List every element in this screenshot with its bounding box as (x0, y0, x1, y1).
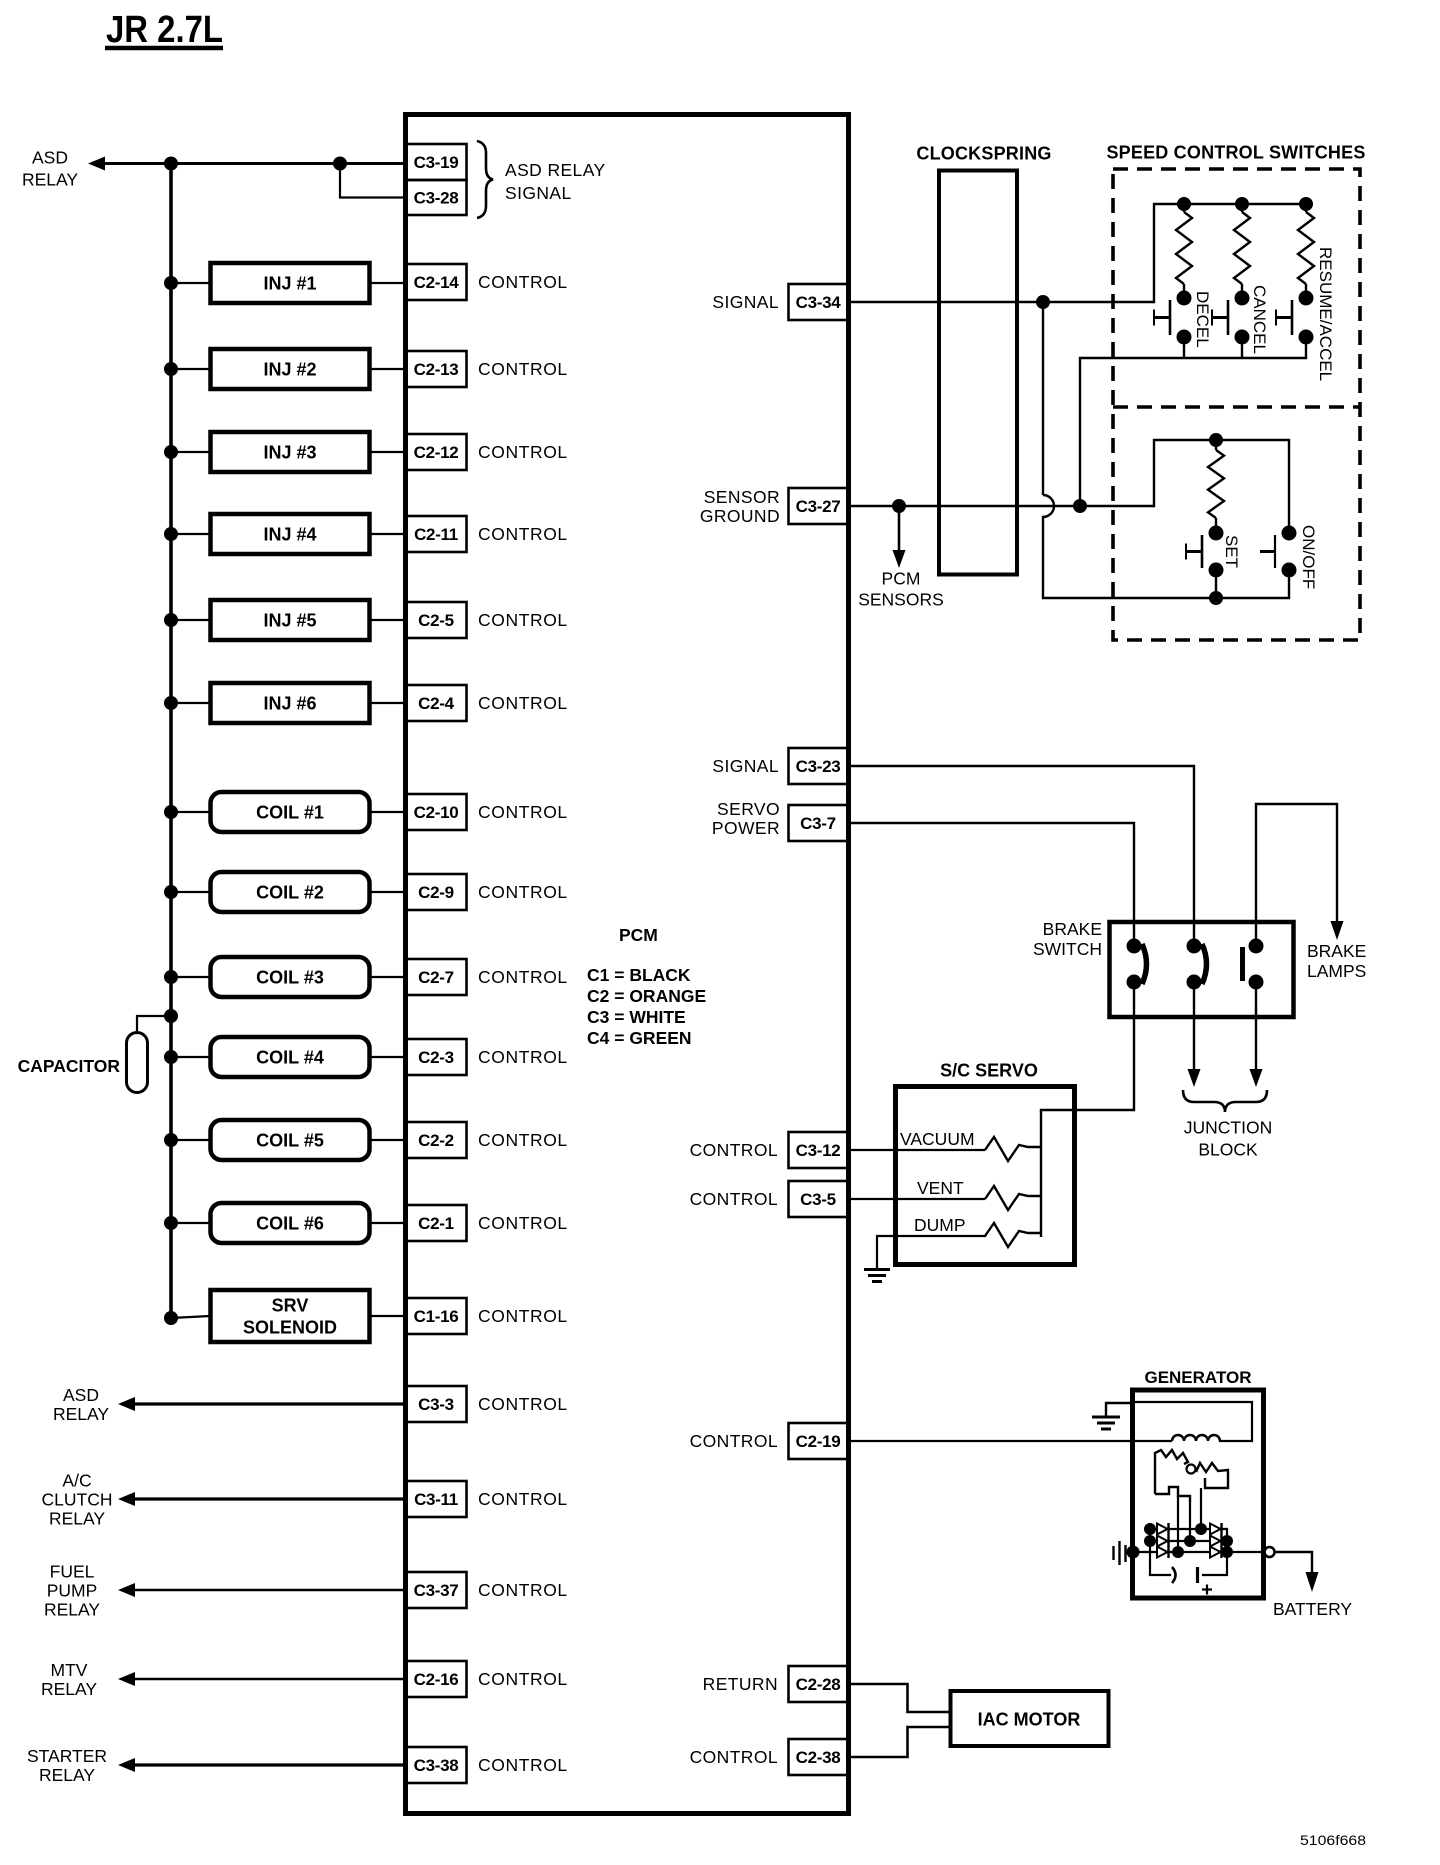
svg-text:CONTROL: CONTROL (478, 1213, 568, 1233)
wire generator internal top (1135, 1402, 1252, 1441)
label CONTROL at pin y=812 (478, 802, 568, 822)
wire capacitor to bus (137, 1016, 171, 1033)
junction dot signal (1036, 295, 1050, 309)
label CONTROL at pin y=1057 (478, 1047, 568, 1067)
ground generator field (1092, 1403, 1132, 1429)
svg-text:COIL #6: COIL #6 (256, 1213, 324, 1233)
svg-text:RELAY: RELAY (22, 169, 78, 189)
svg-text:C2-10: C2-10 (414, 803, 459, 822)
ignition coil COIL #5 (211, 1120, 370, 1160)
svg-text:INJ #5: INJ #5 (263, 610, 316, 630)
chassis ground generator (1114, 1541, 1140, 1565)
S/C servo box (896, 1087, 1075, 1265)
arrow to battery (1306, 1572, 1319, 1592)
wire PCM to STARTER RELAY (133, 1763, 406, 1766)
pin C2-28 (789, 1666, 849, 1702)
label GENERATOR (1144, 1368, 1251, 1387)
injector INJ #6 (211, 683, 370, 723)
svg-text:ASD: ASD (63, 1385, 99, 1405)
svg-text:C2-4: C2-4 (418, 694, 454, 713)
label CONTROL at pin y=1140 (478, 1130, 568, 1150)
brake switch contact 2 (1187, 939, 1207, 990)
label CONTROL at pin y=977 (478, 967, 568, 987)
wire bus branch y=812 (171, 811, 210, 813)
junction dot bus y=534 (164, 527, 178, 541)
pin C2-4 (406, 685, 467, 721)
brake switch contact 1 (1127, 939, 1147, 990)
label ON/OFF (1299, 525, 1318, 589)
svg-text:C3-5: C3-5 (800, 1190, 836, 1209)
junction dot bus y=283 (164, 276, 178, 290)
svg-text:C2-11: C2-11 (414, 525, 458, 544)
svg-text:CONTROL: CONTROL (478, 1130, 568, 1150)
label SENSOR GROUND (C3-27) (700, 487, 780, 526)
generator output terminal (1265, 1547, 1275, 1557)
svg-text:CAPACITOR: CAPACITOR (18, 1056, 121, 1076)
label CONTROL at pin y=452 (478, 442, 568, 462)
svg-text:DUMP: DUMP (914, 1215, 966, 1235)
label CAPACITOR (18, 1056, 121, 1076)
label CONTROL (C3-5) (690, 1189, 778, 1209)
injector INJ #4 (211, 514, 370, 554)
pin C2-7 (406, 959, 467, 995)
svg-text:INJ #2: INJ #2 (263, 359, 316, 379)
rectifier bridge row 2 (1144, 1535, 1233, 1547)
svg-text:BRAKE: BRAKE (1307, 941, 1366, 961)
svg-text:ASD: ASD (32, 147, 68, 167)
wire bus branch y=452 (171, 451, 210, 453)
wire signal riser to switch bus (1154, 204, 1306, 302)
junction dot bus y=1140 (164, 1133, 178, 1147)
svg-text:CONTROL: CONTROL (690, 1189, 778, 1209)
svg-text:CONTROL: CONTROL (478, 524, 568, 544)
svg-text:CONTROL: CONTROL (478, 802, 568, 822)
svg-text:BRAKE: BRAKE (1043, 919, 1102, 939)
svg-text:C2-14: C2-14 (414, 273, 460, 292)
pin C2-19 (789, 1423, 849, 1459)
ground servo dump (864, 1270, 890, 1282)
junction dot bus y=1318 (164, 1311, 178, 1325)
field coil winding (1172, 1435, 1220, 1441)
stator winding (1155, 1450, 1228, 1502)
label MTV RELAY (41, 1660, 97, 1699)
svg-text:C2-13: C2-13 (414, 360, 459, 379)
junction dot SET bottom bus (1209, 591, 1223, 605)
junction dot RESUME/ACCEL top bus (1299, 197, 1313, 211)
generator box (1133, 1390, 1264, 1598)
svg-text:CONTROL: CONTROL (478, 442, 568, 462)
svg-text:CONTROL: CONTROL (478, 1489, 568, 1509)
svg-text:RELAY: RELAY (53, 1404, 109, 1424)
pin C3-27 (789, 488, 849, 524)
wire component to pin y=1057 (369, 1056, 406, 1058)
svg-text:SENSOR: SENSOR (704, 487, 780, 507)
svg-text:C3-7: C3-7 (800, 814, 836, 833)
injector INJ #5 (211, 600, 370, 640)
wire bus branch y=283 (171, 282, 210, 284)
svg-text:SPEED CONTROL SWITCHES: SPEED CONTROL SWITCHES (1106, 142, 1365, 162)
junction dot bus y=369 (164, 362, 178, 376)
wire stator phase 1 (1177, 1496, 1179, 1552)
junction dot ASD bus (164, 157, 178, 171)
brace ASD relay signal (477, 141, 493, 218)
label CONTROL at pin y=1223 (478, 1213, 568, 1233)
pin C3-3 (406, 1386, 467, 1422)
svg-text:C2-28: C2-28 (796, 1675, 841, 1694)
label SPEED CONTROL SWITCHES (1106, 142, 1365, 162)
injector INJ #2 (211, 349, 370, 389)
svg-text:SWITCH: SWITCH (1033, 939, 1102, 959)
svg-text:CONTROL: CONTROL (478, 1669, 568, 1689)
svg-text:CONTROL: CONTROL (478, 693, 568, 713)
svg-text:ASD RELAY: ASD RELAY (505, 160, 606, 180)
pin C3-11 (406, 1481, 467, 1517)
speed control switches dashed box (1113, 169, 1360, 640)
svg-text:RELAY: RELAY (39, 1765, 95, 1785)
wire component to pin y=977 (369, 976, 406, 978)
svg-text:FUEL: FUEL (50, 1561, 95, 1581)
svg-text:RELAY: RELAY (49, 1508, 105, 1528)
svg-text:CLOCKSPRING: CLOCKSPRING (916, 143, 1051, 163)
svg-text:GROUND: GROUND (700, 506, 780, 526)
svg-text:ON/OFF: ON/OFF (1299, 525, 1318, 589)
pin C2-1 (406, 1205, 467, 1241)
switch RESUME/ACCEL (1276, 291, 1314, 359)
wire stator phase 3 (1200, 1488, 1202, 1529)
pin C1-16 (406, 1298, 467, 1334)
label CONTROL at pin y=1499 (478, 1489, 568, 1509)
brace junction block (1183, 1090, 1267, 1112)
ignition coil COIL #2 (211, 872, 370, 912)
pin C3-19 (406, 144, 467, 180)
label BRAKE SWITCH (1033, 919, 1102, 959)
svg-text:C3-19: C3-19 (414, 153, 459, 172)
label S/C SERVO (940, 1060, 1038, 1080)
label CANCEL (1250, 285, 1269, 354)
wire DUMP to ground (877, 1236, 985, 1268)
brush 1 (1172, 1567, 1176, 1583)
pin C2-11 (406, 516, 467, 552)
wire bridge right column (1203, 1529, 1227, 1575)
label 5106f668 (1300, 1833, 1366, 1848)
svg-text:CONTROL: CONTROL (690, 1140, 778, 1160)
capacitor (127, 1033, 148, 1093)
svg-text:RELAY: RELAY (41, 1679, 97, 1699)
svg-text:VENT: VENT (917, 1178, 964, 1198)
title JR 2.7L (105, 9, 223, 51)
svg-text:INJ #6: INJ #6 (263, 693, 316, 713)
label ASD RELAY SIGNAL (505, 160, 606, 203)
pin C2-16 (406, 1661, 467, 1697)
svg-text:C2-7: C2-7 (418, 968, 454, 987)
PCM box U1 (406, 115, 849, 1814)
brake switch contact 3 (1243, 939, 1264, 990)
resistor RESUME/ACCEL (1298, 204, 1314, 293)
junction dot sensor ground bus (1073, 499, 1087, 513)
wire component to pin y=812 (369, 811, 406, 813)
svg-text:C2-16: C2-16 (414, 1670, 459, 1689)
svg-text:C3-34: C3-34 (796, 293, 842, 312)
label VACUUM (900, 1129, 975, 1149)
svg-text:INJ #1: INJ #1 (263, 273, 316, 293)
svg-text:CONTROL: CONTROL (478, 610, 568, 630)
wire VENT control C3-5 (848, 1198, 985, 1200)
label ASD RELAY (top left) (22, 147, 78, 189)
svg-text:C3-12: C3-12 (796, 1141, 841, 1160)
svg-text:A/C: A/C (62, 1470, 91, 1490)
wire C2-19 field control (848, 1440, 1172, 1442)
pin C2-5 (406, 602, 467, 638)
wire brake lamps (1256, 804, 1337, 940)
svg-text:CONTROL: CONTROL (478, 272, 568, 292)
svg-text:C2-12: C2-12 (414, 443, 459, 462)
junction dot ASD branch (333, 157, 347, 171)
ignition coil COIL #3 (211, 957, 370, 997)
svg-text:CONTROL: CONTROL (478, 359, 568, 379)
pin C2-13 (406, 351, 467, 387)
wire set top bus (1154, 440, 1289, 506)
wire PCM to A/C CLUTCH RELAY (133, 1497, 406, 1500)
pin C2-38 (789, 1739, 849, 1775)
label ASD RELAY (53, 1385, 109, 1424)
label CONTROL at pin y=1316 (478, 1306, 568, 1326)
svg-text:C3-38: C3-38 (414, 1756, 459, 1775)
svg-text:COIL #1: COIL #1 (256, 802, 324, 822)
rectifier bridge row 3 (1135, 1546, 1265, 1558)
label SIGNAL (C3-34) (712, 292, 779, 312)
wire C2-38 control (848, 1727, 950, 1757)
junction dot bus y=620 (164, 613, 178, 627)
svg-text:5106f668: 5106f668 (1300, 1833, 1366, 1848)
svg-text:RELAY: RELAY (44, 1599, 100, 1619)
ignition coil COIL #1 (211, 792, 370, 832)
label A/C CLUTCH RELAY (42, 1470, 113, 1528)
svg-text:C2-1: C2-1 (418, 1214, 454, 1233)
svg-text:SET: SET (1222, 535, 1241, 568)
svg-text:C2-5: C2-5 (418, 611, 454, 630)
svg-text:COIL #2: COIL #2 (256, 882, 324, 902)
svg-text:C4 = GREEN: C4 = GREEN (587, 1028, 692, 1048)
resistor SET (1208, 440, 1224, 526)
svg-text:CANCEL: CANCEL (1250, 285, 1269, 354)
svg-text:SIGNAL: SIGNAL (712, 756, 779, 776)
svg-text:MTV: MTV (51, 1660, 88, 1680)
pin C3-38 (406, 1747, 467, 1783)
label CONTROL (C2-38) (690, 1747, 778, 1767)
switch ON/OFF (1260, 440, 1297, 598)
svg-text:RESUME/ACCEL: RESUME/ACCEL (1316, 247, 1335, 381)
wire C3-34 signal (848, 301, 1154, 303)
arrow to STARTER RELAY (118, 1758, 135, 1772)
svg-text:SRV: SRV (272, 1295, 309, 1315)
wire switch bottom bus (1080, 358, 1306, 506)
wire brake to servo (1041, 988, 1134, 1110)
svg-text:STARTER: STARTER (27, 1746, 107, 1766)
switch SET (1186, 526, 1224, 599)
wire bus branch y=892 (171, 891, 210, 893)
pin C2-10 (406, 794, 467, 830)
label CONTROL at pin y=1765 (478, 1755, 568, 1775)
arrow to ASD RELAY (118, 1397, 135, 1411)
wire bus branch y=1318 (171, 1316, 210, 1318)
svg-text:JUNCTION: JUNCTION (1184, 1117, 1272, 1137)
junction dot bus y=452 (164, 445, 178, 459)
pin C3-12 (789, 1132, 849, 1168)
svg-text:LAMPS: LAMPS (1307, 961, 1366, 981)
label CONTROL at pin y=282 (478, 272, 568, 292)
label CLOCKSPRING (916, 143, 1051, 163)
label DUMP (914, 1215, 966, 1235)
wire servo internal bus (1040, 1110, 1042, 1237)
pin C3-5 (789, 1181, 849, 1217)
svg-text:CONTROL: CONTROL (478, 1047, 568, 1067)
wire bus branch y=534 (171, 533, 210, 535)
ignition coil COIL #6 (211, 1203, 370, 1243)
resistor DECEL (1176, 204, 1192, 293)
wire component to pin y=1316 (369, 1315, 406, 1317)
svg-text:C2 = ORANGE: C2 = ORANGE (587, 986, 706, 1006)
wire PCM to ASD RELAY (133, 1402, 406, 1405)
label RETURN (C2-28) (703, 1674, 778, 1694)
label JUNCTION BLOCK (1184, 1117, 1272, 1159)
junction dot bus y=1223 (164, 1216, 178, 1230)
injector INJ #1 (211, 263, 370, 303)
wire bus branch y=1223 (171, 1222, 210, 1224)
svg-text:INJ #4: INJ #4 (263, 524, 316, 544)
wire bridge left column (1150, 1529, 1170, 1575)
svg-text:C1-16: C1-16 (414, 1307, 459, 1326)
wire component to pin y=703 (369, 702, 406, 704)
junction dot DECEL top bus (1177, 197, 1191, 211)
label BATTERY (1273, 1599, 1352, 1619)
resistor VACUUM valve (985, 1137, 1041, 1161)
svg-text:C3-23: C3-23 (796, 757, 841, 776)
label CONTROL at pin y=892 (478, 882, 568, 902)
wire C3-23 to brake switch (848, 766, 1194, 940)
wire C2-28 return (848, 1684, 950, 1712)
pin C3-34 (789, 284, 849, 320)
svg-text:IAC MOTOR: IAC MOTOR (978, 1709, 1081, 1729)
switch CANCEL (1212, 291, 1250, 359)
wire component to pin y=620 (369, 619, 406, 621)
label CONTROL at pin y=620 (478, 610, 568, 630)
svg-text:CONTROL: CONTROL (478, 1580, 568, 1600)
wire bus branch y=620 (171, 619, 210, 621)
pin C2-2 (406, 1122, 467, 1158)
svg-text:C2-19: C2-19 (796, 1432, 841, 1451)
label CONTROL at pin y=1590 (478, 1580, 568, 1600)
svg-text:CONTROL: CONTROL (478, 1394, 568, 1414)
label BRAKE LAMPS (1307, 941, 1366, 981)
arrow to brake lamps (1331, 921, 1344, 940)
svg-text:SIGNAL: SIGNAL (712, 292, 779, 312)
label CONTROL at pin y=703 (478, 693, 568, 713)
svg-text:C3-28: C3-28 (414, 189, 459, 208)
label PCM SENSORS (858, 568, 944, 609)
pin C3-28 (406, 180, 467, 215)
resistor DUMP valve (985, 1223, 1041, 1247)
pin C2-12 (406, 434, 467, 470)
wire C3-7 to brake switch (848, 823, 1134, 940)
svg-text:BATTERY: BATTERY (1273, 1599, 1352, 1619)
label CONTROL (C2-19) (690, 1431, 778, 1451)
label RESUME/ACCEL (1316, 247, 1335, 381)
legend connector colors (587, 965, 706, 1048)
junction dot CANCEL top bus (1235, 197, 1249, 211)
arrow to ASD relay (88, 157, 105, 171)
svg-text:C2-9: C2-9 (418, 883, 454, 902)
switch DECEL (1154, 291, 1192, 359)
wire bus branch y=1057 (171, 1056, 210, 1058)
svg-text:COIL #5: COIL #5 (256, 1130, 324, 1150)
svg-text:JR 2.7L: JR 2.7L (106, 9, 223, 51)
svg-text:C1 = BLACK: C1 = BLACK (587, 965, 691, 985)
dashed divider line (1113, 405, 1360, 409)
svg-text:SENSORS: SENSORS (858, 589, 944, 609)
arrow to A/C CLUTCH RELAY (118, 1492, 135, 1506)
label STARTER RELAY (27, 1746, 107, 1785)
wire component to pin y=452 (369, 451, 406, 453)
rectifier bridge row 1 (1144, 1523, 1227, 1535)
svg-text:CONTROL: CONTROL (690, 1431, 778, 1451)
junction dot PCM sensors tap (892, 499, 906, 513)
wire PCM to MTV RELAY (133, 1678, 406, 1680)
label SET (1222, 535, 1241, 568)
svg-text:SOLENOID: SOLENOID (243, 1317, 337, 1337)
svg-text:S/C SERVO: S/C SERVO (940, 1060, 1038, 1080)
ignition coil COIL #4 (211, 1037, 370, 1077)
pin C2-9 (406, 874, 467, 910)
svg-text:C3-37: C3-37 (414, 1581, 459, 1600)
junction dot bus y=812 (164, 805, 178, 819)
svg-text:C3 = WHITE: C3 = WHITE (587, 1007, 686, 1027)
SRV solenoid box (211, 1290, 370, 1342)
junction dot bus y=1057 (164, 1050, 178, 1064)
wire bus branch y=1140 (171, 1139, 210, 1141)
svg-text:CONTROL: CONTROL (478, 1755, 568, 1775)
wire component to pin y=1223 (369, 1222, 406, 1224)
wire component to pin y=1140 (369, 1139, 406, 1141)
svg-text:COIL #4: COIL #4 (256, 1047, 324, 1067)
junction dot bus y=892 (164, 885, 178, 899)
label CONTROL at pin y=1679 (478, 1669, 568, 1689)
svg-text:BLOCK: BLOCK (1198, 1139, 1258, 1159)
wire VACUUM control C3-12 (848, 1149, 985, 1151)
wire component to pin y=534 (369, 533, 406, 535)
svg-text:POWER: POWER (712, 818, 780, 838)
svg-text:CONTROL: CONTROL (478, 1306, 568, 1326)
wire ASD relay feed (103, 162, 406, 165)
wire junction block drop 1 (1188, 988, 1201, 1087)
pin C2-14 (406, 264, 467, 300)
svg-text:COIL #3: COIL #3 (256, 967, 324, 987)
arrow to MTV RELAY (118, 1672, 135, 1686)
wire branch to C3-28 (340, 164, 406, 198)
pin C3-7 (789, 805, 849, 841)
injector INJ #3 (211, 432, 370, 472)
wire bus branch y=703 (171, 702, 210, 704)
svg-text:C2-2: C2-2 (418, 1131, 454, 1150)
IAC motor box (951, 1691, 1109, 1746)
junction dot bus y=977 (164, 970, 178, 984)
wire left supply bus (169, 164, 173, 1319)
label SERVO POWER (C3-7) (712, 799, 780, 838)
wire to battery (1275, 1552, 1312, 1572)
pin C2-3 (406, 1039, 467, 1075)
label FUEL PUMP RELAY (44, 1561, 100, 1619)
wire bus branch y=977 (171, 976, 210, 978)
label CONTROL at pin y=1404 (478, 1394, 568, 1414)
